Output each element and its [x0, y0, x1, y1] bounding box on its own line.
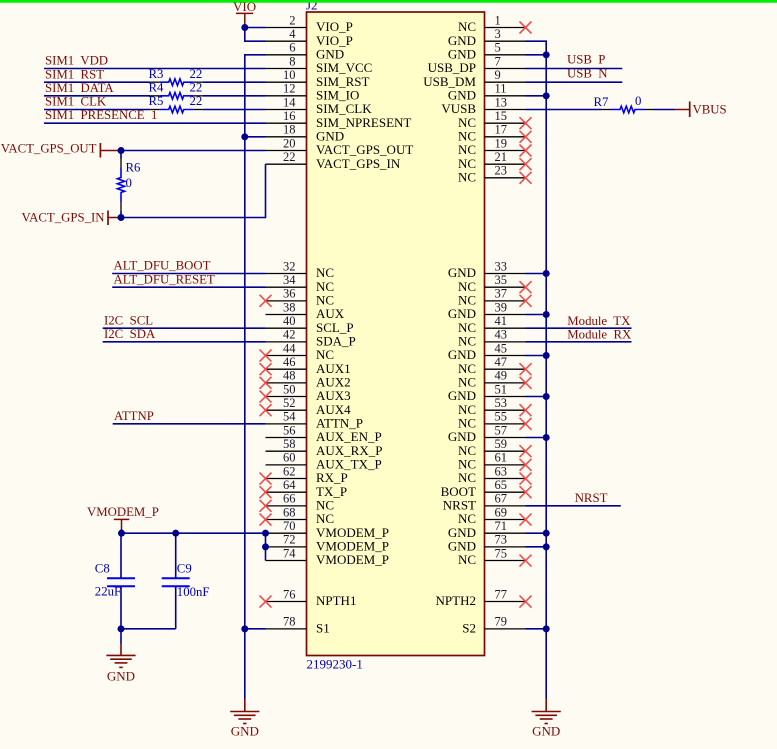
- pin 33 (GND): [448, 259, 526, 280]
- svg-text:R3: R3: [149, 67, 164, 81]
- pin 48 (AUX2): [266, 369, 351, 390]
- svg-text:74: 74: [283, 546, 296, 560]
- resistor R5 22: [149, 94, 203, 113]
- svg-text:69: 69: [495, 505, 508, 519]
- svg-text:49: 49: [495, 369, 508, 383]
- wire pin79 to GND bus: [526, 628, 547, 630]
- pin 75 (NC): [458, 546, 526, 567]
- svg-text:60: 60: [283, 451, 296, 465]
- pin 77 (NPTH2): [436, 587, 526, 608]
- wire pin33 to GND bus: [526, 273, 547, 275]
- wire pin11 to GND bus: [526, 95, 547, 97]
- svg-text:2199230-1: 2199230-1: [307, 657, 363, 672]
- wire SIM1 VDD to pin8: [44, 68, 266, 70]
- port VBUS: [675, 102, 727, 118]
- svg-text:R6: R6: [126, 161, 142, 175]
- svg-text:3: 3: [495, 27, 501, 41]
- wire SIM1 CLK left of R5: [44, 109, 150, 111]
- pin 56 (AUX_EN_P): [266, 423, 382, 444]
- junction pin71: [543, 530, 550, 537]
- svg-text:62: 62: [283, 464, 296, 478]
- wire C9 to C8 ground: [121, 628, 176, 630]
- svg-text:19: 19: [495, 136, 508, 150]
- svg-text:15: 15: [495, 109, 508, 123]
- junction pin70: [262, 530, 269, 537]
- junction VMODEM_P port: [118, 530, 125, 537]
- pin 58 (AUX_RX_P): [266, 437, 383, 458]
- wire R4 to pin: [202, 95, 265, 97]
- wire NRST pin67: [526, 505, 621, 507]
- pin 63 (NC): [458, 464, 526, 485]
- svg-text:40: 40: [283, 314, 296, 328]
- svg-text:56: 56: [283, 423, 296, 437]
- svg-text:5: 5: [495, 41, 501, 55]
- junction pin33: [543, 270, 550, 277]
- pin 3 (GND): [448, 27, 526, 48]
- wire pin51 to GND bus: [526, 396, 547, 398]
- svg-text:Module TX: Module TX: [567, 314, 631, 328]
- pin 70 (VMODEM_P): [266, 519, 389, 540]
- no-connect X pin 21: [520, 158, 532, 170]
- pin 21 (NC): [458, 150, 526, 171]
- wire pin57 to GND bus: [526, 437, 547, 439]
- pin 35 (NC): [458, 273, 526, 294]
- pin 10 (SIM_RST): [266, 68, 370, 89]
- pin 36 (NC): [266, 287, 335, 308]
- svg-text:22: 22: [190, 94, 203, 108]
- svg-text:NC: NC: [458, 170, 476, 185]
- capacitor C9 100nF: [162, 533, 210, 629]
- pin 59 (NC): [458, 437, 526, 458]
- pin 8 (SIM_VCC): [266, 54, 373, 75]
- svg-text:SIM1 VDD: SIM1 VDD: [45, 53, 108, 67]
- svg-text:SIM1 PRESENCE 1: SIM1 PRESENCE 1: [45, 108, 157, 122]
- junction pin11: [543, 92, 550, 99]
- svg-text:64: 64: [283, 478, 296, 492]
- svg-text:20: 20: [283, 136, 296, 150]
- no-connect X pin 1: [520, 22, 532, 34]
- svg-text:41: 41: [495, 314, 508, 328]
- wire SIM1 DATA left of R4: [44, 95, 150, 97]
- svg-text:63: 63: [495, 464, 508, 478]
- wire Module RX pin43: [526, 341, 632, 343]
- svg-text:NPTH2: NPTH2: [436, 593, 476, 608]
- svg-text:ATTNP: ATTNP: [114, 409, 154, 423]
- pin 32 (NC): [266, 259, 335, 280]
- svg-text:52: 52: [283, 396, 296, 410]
- pin 49 (NC): [458, 369, 526, 390]
- junction pin45: [543, 352, 550, 359]
- svg-text:77: 77: [495, 587, 508, 601]
- pin 17 (NC): [458, 123, 526, 144]
- svg-text:51: 51: [495, 382, 508, 396]
- svg-text:53: 53: [495, 396, 508, 410]
- pin 47 (NC): [458, 355, 526, 376]
- net label ALT_DFU_BOOT: [114, 259, 211, 273]
- pin 72 (VMODEM_P): [266, 533, 389, 554]
- pin 7 (USB_DP): [428, 54, 526, 75]
- pin 39 (GND): [448, 300, 526, 321]
- pin 12 (SIM_IO): [266, 82, 360, 103]
- no-connect X pin 68: [260, 514, 272, 526]
- ground GND bottom right: [532, 699, 561, 739]
- net label Module RX: [567, 328, 632, 342]
- wire VMODEM_P to pin70: [122, 529, 266, 533]
- junction VACT_GPS_OUT R6: [118, 147, 125, 154]
- svg-text:16: 16: [283, 109, 296, 123]
- svg-text:VMODEM_P: VMODEM_P: [87, 505, 159, 519]
- no-connect X pin 61: [520, 459, 532, 471]
- svg-text:VACT_GPS_OUT: VACT_GPS_OUT: [1, 142, 97, 156]
- pin 37 (NC): [458, 287, 526, 308]
- svg-text:ALT_DFU_BOOT: ALT_DFU_BOOT: [114, 259, 211, 273]
- svg-text:68: 68: [283, 505, 296, 519]
- svg-text:73: 73: [495, 533, 508, 547]
- pin 18 (GND): [266, 123, 345, 144]
- pin 16 (SIM_NPRESENT): [266, 109, 412, 130]
- svg-text:71: 71: [495, 519, 508, 533]
- svg-text:10: 10: [283, 68, 296, 82]
- wire pin5 to GND bus: [526, 54, 547, 56]
- svg-text:36: 36: [283, 287, 296, 301]
- svg-text:72: 72: [283, 533, 296, 547]
- pin 53 (NC): [458, 396, 526, 417]
- no-connect X pin 47: [520, 363, 532, 375]
- svg-text:57: 57: [495, 423, 508, 437]
- svg-text:VACT_GPS_IN: VACT_GPS_IN: [316, 156, 401, 171]
- svg-text:39: 39: [495, 300, 508, 314]
- pin 1 (NC): [458, 13, 526, 34]
- pin 57 (GND): [448, 423, 526, 444]
- pin 43 (NC): [458, 328, 526, 349]
- pin 13 (VUSB): [441, 95, 525, 116]
- pin 71 (GND): [448, 519, 526, 540]
- svg-text:21: 21: [495, 150, 508, 164]
- pin 73 (GND): [448, 533, 526, 554]
- pin 69 (NC): [458, 505, 526, 526]
- net label ALT_DFU_RESET: [114, 272, 215, 286]
- pin 52 (AUX4): [266, 396, 352, 417]
- svg-text:9: 9: [495, 68, 501, 82]
- svg-text:48: 48: [283, 369, 296, 383]
- wire pins 70-72-74 link: [265, 533, 267, 560]
- svg-text:43: 43: [495, 328, 508, 342]
- svg-text:6: 6: [289, 41, 295, 55]
- no-connect X pin 59: [520, 445, 532, 457]
- svg-text:ALT_DFU_RESET: ALT_DFU_RESET: [114, 272, 215, 286]
- wire USB N pin9: [526, 81, 623, 83]
- net label SIM1 CLK: [45, 95, 107, 109]
- svg-text:USB P: USB P: [567, 53, 605, 67]
- no-connect X pin 75: [520, 555, 532, 567]
- junction C9 top: [172, 530, 179, 537]
- no-connect X pin 37: [520, 295, 532, 307]
- pin 79 (S2): [462, 615, 525, 636]
- pin 76 (NPTH1): [266, 587, 357, 608]
- svg-text:78: 78: [283, 615, 296, 629]
- wire VUSB pin13 to R7: [526, 109, 602, 111]
- pin 19 (NC): [458, 136, 526, 157]
- svg-text:GND: GND: [532, 724, 560, 739]
- wire pin18 to GND bus: [245, 136, 266, 138]
- pin 66 (NC): [266, 492, 335, 513]
- pin 9 (USB_DM): [423, 68, 525, 89]
- svg-text:22: 22: [190, 80, 203, 94]
- net label SIM1 VDD: [45, 53, 108, 67]
- svg-text:SIM1 RST: SIM1 RST: [45, 67, 104, 81]
- wire VIO to pins 2,4: [245, 24, 266, 41]
- svg-text:SIM1 DATA: SIM1 DATA: [45, 81, 114, 95]
- wire pin73 to GND bus: [526, 546, 547, 548]
- svg-text:I2C SDA: I2C SDA: [104, 327, 156, 341]
- pin 40 (SCL_P): [266, 314, 354, 335]
- pin 4 (VIO_P): [266, 27, 353, 48]
- net label USB N: [567, 66, 608, 80]
- no-connect X pin 66: [260, 500, 272, 512]
- junction VACT_GPS_IN R6: [118, 214, 125, 221]
- svg-text:38: 38: [283, 300, 296, 314]
- wire I2C SDA: [103, 341, 266, 343]
- svg-text:4: 4: [289, 27, 296, 41]
- no-connect X pin 15: [520, 117, 532, 129]
- no-connect X pin 77: [520, 596, 532, 608]
- designator J2: [306, 0, 318, 13]
- pin 46 (AUX1): [266, 355, 351, 376]
- svg-text:45: 45: [495, 341, 508, 355]
- wire S1 pin78 to GND bus: [245, 628, 266, 630]
- pin 55 (NC): [458, 410, 526, 431]
- svg-text:12: 12: [283, 82, 296, 96]
- no-connect X pin 62: [260, 473, 272, 485]
- svg-text:GND: GND: [107, 668, 135, 683]
- pin 78 (S1): [266, 615, 330, 636]
- pin 62 (RX_P): [266, 464, 348, 485]
- no-connect X pin 63: [520, 473, 532, 485]
- svg-text:R7: R7: [594, 95, 610, 109]
- svg-text:34: 34: [283, 273, 296, 287]
- svg-text:23: 23: [495, 164, 508, 178]
- svg-text:VACT_GPS_IN: VACT_GPS_IN: [22, 211, 105, 225]
- port VACT_GPS_IN: [22, 211, 121, 226]
- svg-text:GND: GND: [231, 724, 259, 739]
- svg-text:54: 54: [283, 410, 296, 424]
- junction pin73: [543, 543, 550, 550]
- pin 6 (GND): [266, 41, 345, 62]
- no-connect X pin 23: [520, 172, 532, 184]
- wire R3 to pin: [202, 81, 265, 83]
- no-connect X pin 44: [260, 350, 272, 362]
- pin 51 (GND): [448, 382, 526, 403]
- svg-text:22: 22: [283, 150, 296, 164]
- no-connect X pin 65: [520, 486, 532, 498]
- part number 2199230-1: [307, 657, 363, 672]
- no-connect X pin 48: [260, 377, 272, 389]
- svg-text:VBUS: VBUS: [693, 102, 727, 116]
- svg-text:37: 37: [495, 287, 508, 301]
- no-connect X pin 36: [260, 295, 272, 307]
- pin 60 (AUX_TX_P): [266, 451, 382, 472]
- pin 64 (TX_P): [266, 478, 348, 499]
- no-connect X pin 64: [260, 486, 272, 498]
- port VACT_GPS_OUT: [1, 142, 121, 158]
- svg-text:14: 14: [283, 95, 296, 109]
- net label I2C SDA: [104, 327, 156, 341]
- pin 2 (VIO_P): [266, 13, 353, 34]
- no-connect X pin 53: [520, 404, 532, 416]
- svg-text:46: 46: [283, 355, 296, 369]
- wire USB P pin7: [526, 68, 623, 70]
- pin 44 (NC): [266, 341, 335, 362]
- svg-text:79: 79: [495, 615, 508, 629]
- svg-text:65: 65: [495, 478, 508, 492]
- svg-text:17: 17: [495, 123, 508, 137]
- wire VACT_GPS_OUT to pin20: [121, 150, 266, 152]
- wire Module TX pin41: [526, 327, 632, 329]
- svg-text:S2: S2: [462, 621, 476, 636]
- wire I2C SCL: [103, 327, 266, 329]
- svg-text:S1: S1: [316, 621, 330, 636]
- junction pin79: [543, 625, 550, 632]
- power port VMODEM_P: [87, 505, 159, 530]
- net label ATTNP: [114, 409, 154, 423]
- pin 15 (NC): [458, 109, 526, 130]
- junction pin51: [543, 393, 550, 400]
- wire VACT_GPS_IN to pin22: [121, 164, 266, 217]
- pin 22 (VACT_GPS_IN): [266, 150, 401, 171]
- pin 45 (GND): [448, 341, 526, 362]
- junction C8 ground: [118, 625, 125, 632]
- wire ALT_DFU_RESET: [112, 286, 265, 288]
- net label I2C SCL: [104, 313, 153, 327]
- svg-text:66: 66: [283, 492, 296, 506]
- junction pin5: [543, 51, 550, 58]
- svg-text:32: 32: [283, 259, 296, 273]
- svg-text:Module RX: Module RX: [567, 328, 632, 342]
- pin 38 (AUX): [266, 300, 345, 321]
- wire pin71 to GND bus: [526, 532, 547, 534]
- no-connect X pin 52: [260, 404, 272, 416]
- svg-text:44: 44: [283, 341, 296, 355]
- svg-text:NPTH1: NPTH1: [316, 593, 356, 608]
- wire R5 to pin: [202, 109, 265, 111]
- resistor R6 0: [117, 151, 141, 218]
- pin 11 (GND): [448, 82, 526, 103]
- sheet border (green): [0, 0, 777, 3]
- wire left GND bus: [245, 55, 266, 699]
- pin 54 (ATTN_P): [266, 410, 363, 431]
- svg-text:22: 22: [190, 67, 203, 81]
- net label USB P: [567, 53, 605, 67]
- svg-text:SIM1 CLK: SIM1 CLK: [45, 95, 107, 109]
- svg-text:75: 75: [495, 546, 508, 560]
- svg-text:76: 76: [283, 587, 296, 601]
- svg-text:35: 35: [495, 273, 508, 287]
- svg-text:USB N: USB N: [567, 66, 608, 80]
- svg-text:NC: NC: [458, 552, 476, 567]
- ground GND bottom centre: [230, 699, 259, 739]
- svg-text:2: 2: [289, 13, 295, 27]
- connector J2 body: [307, 12, 485, 656]
- svg-text:C8: C8: [95, 562, 110, 576]
- no-connect X pin 50: [260, 391, 272, 403]
- svg-text:0: 0: [126, 176, 132, 190]
- svg-text:33: 33: [495, 259, 508, 273]
- svg-text:11: 11: [495, 82, 507, 96]
- svg-text:70: 70: [283, 519, 296, 533]
- svg-text:0: 0: [635, 94, 641, 108]
- wire SIM1 PRESENCE to pin16: [44, 122, 266, 124]
- no-connect X pin 19: [520, 145, 532, 157]
- net label SIM1 RST: [45, 67, 104, 81]
- pin 42 (SDA_P): [266, 328, 356, 349]
- resistor R7 0: [594, 94, 654, 113]
- resistor R3 22: [149, 67, 203, 86]
- pin 14 (SIM_CLK): [266, 95, 373, 116]
- net label SIM1 DATA: [45, 81, 114, 95]
- svg-text:1: 1: [495, 13, 501, 27]
- net label SIM1 PRESENCE 1: [45, 108, 157, 122]
- no-connect X pin 49: [520, 377, 532, 389]
- wire ALT_DFU_BOOT: [112, 273, 265, 275]
- junction pin18: [241, 133, 248, 140]
- pin 65 (BOOT): [441, 478, 526, 499]
- svg-text:C9: C9: [177, 562, 192, 576]
- svg-text:47: 47: [495, 355, 508, 369]
- svg-text:50: 50: [283, 382, 296, 396]
- pin 23 (NC): [458, 164, 526, 185]
- svg-text:8: 8: [289, 54, 295, 68]
- svg-text:59: 59: [495, 437, 508, 451]
- svg-text:NRST: NRST: [575, 491, 608, 505]
- wire pin39 to GND bus: [526, 314, 547, 316]
- wire SIM1 RST left of R3: [44, 81, 150, 83]
- junction pin78: [241, 625, 248, 632]
- pin 50 (AUX3): [266, 382, 351, 403]
- junction pin72: [262, 543, 269, 550]
- junction pin57: [543, 434, 550, 441]
- resistor R4 22: [149, 80, 203, 99]
- svg-text:13: 13: [495, 95, 508, 109]
- pin 41 (NC): [458, 314, 526, 335]
- wire pin45 to GND bus: [526, 355, 547, 357]
- power port VIO: [233, 0, 256, 25]
- junction pin39: [543, 311, 550, 318]
- pin 74 (VMODEM_P): [266, 546, 389, 567]
- net label Module TX: [567, 314, 631, 328]
- no-connect X pin 69: [520, 514, 532, 526]
- svg-text:VMODEM_P: VMODEM_P: [316, 552, 389, 567]
- svg-text:58: 58: [283, 437, 296, 451]
- pin 67 (NRST): [443, 492, 526, 513]
- no-connect X pin 46: [260, 363, 272, 375]
- svg-text:55: 55: [495, 410, 508, 424]
- svg-text:22uF: 22uF: [95, 585, 121, 599]
- svg-text:R4: R4: [149, 80, 165, 94]
- wire ATTNP: [113, 423, 266, 425]
- pin 34 (NC): [266, 273, 335, 294]
- net label NRST: [575, 491, 608, 505]
- no-connect X pin 35: [520, 281, 532, 293]
- no-connect X pin 17: [520, 131, 532, 143]
- svg-text:7: 7: [495, 54, 501, 68]
- pin 68 (NC): [266, 505, 335, 526]
- wire R7 to VBUS: [654, 109, 676, 111]
- svg-text:100nF: 100nF: [177, 585, 210, 599]
- pin 61 (NC): [458, 451, 526, 472]
- no-connect X pin 76: [260, 596, 272, 608]
- svg-text:I2C SCL: I2C SCL: [104, 313, 153, 327]
- svg-text:42: 42: [283, 328, 296, 342]
